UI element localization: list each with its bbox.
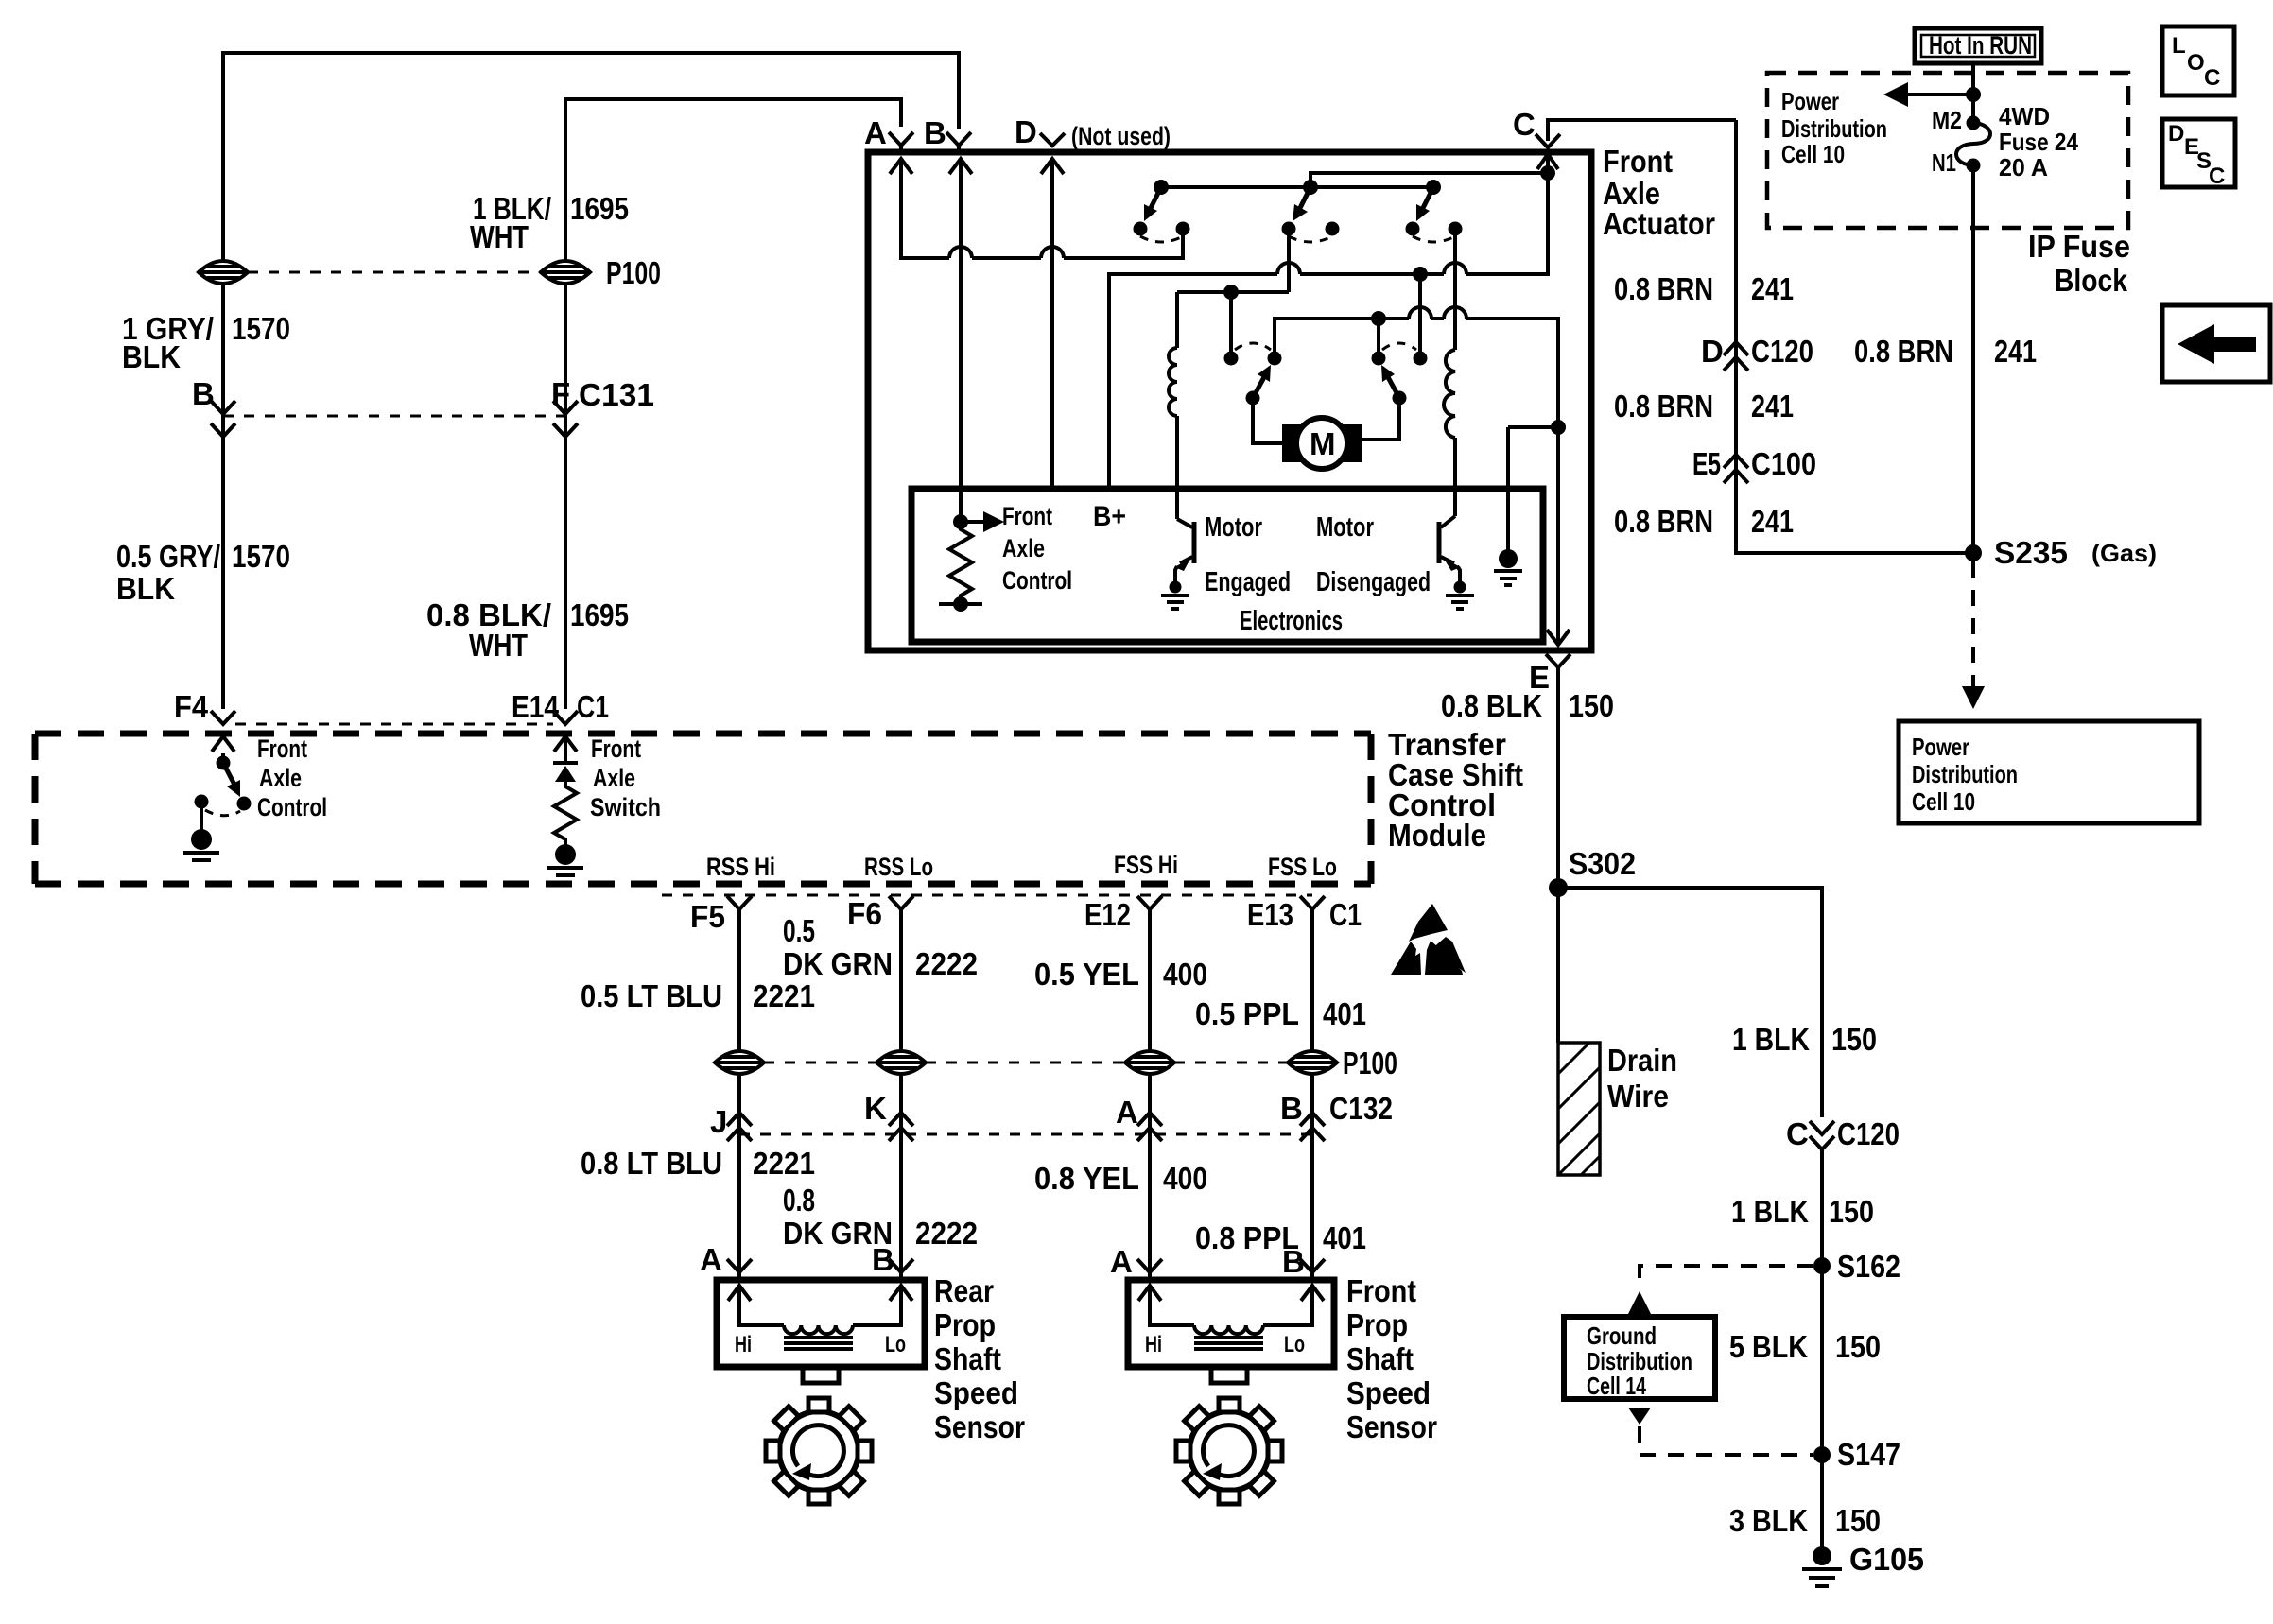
svg-text:E12: E12: [1084, 897, 1131, 932]
rear sensor pin B arrow: [853, 1286, 912, 1325]
svg-text:C120: C120: [1751, 334, 1813, 369]
svg-text:0.5: 0.5: [783, 913, 815, 948]
terminal D chevron (not used): [1040, 133, 1065, 146]
svg-text:F: F: [551, 376, 570, 411]
svg-text:O: O: [2187, 50, 2205, 76]
svg-text:S235: S235: [1994, 535, 2068, 570]
connector P100 pass-through (E12 wire): [1125, 1051, 1174, 1074]
svg-text:2222: 2222: [915, 946, 978, 981]
svg-text:Actuator: Actuator: [1603, 206, 1715, 241]
svg-text:Speed: Speed: [934, 1375, 1018, 1410]
svg-text:B: B: [924, 115, 946, 150]
svg-text:FSS Hi: FSS Hi: [1114, 851, 1178, 879]
wire E exit with arrow: [1547, 427, 1570, 645]
front sensor mount tab: [1211, 1367, 1247, 1383]
dashed link ground distribution to S147: [1628, 1408, 1813, 1455]
svg-text:0.5 GRY/: 0.5 GRY/: [116, 539, 220, 574]
svg-text:P100: P100: [606, 255, 661, 290]
connector P100 pass-through (right wire): [541, 261, 590, 284]
resistor bottom junction dot and bus: [939, 596, 982, 612]
connector P100 pass-through (F6 wire): [876, 1051, 926, 1074]
coil L2 (disengage winding): [1444, 235, 1455, 516]
svg-text:WHT: WHT: [470, 219, 529, 254]
label Front Prop Shaft Speed Sensor: [1346, 1273, 1437, 1444]
svg-text:C: C: [2204, 65, 2220, 91]
switch S2 (pivot dot, arm, contacts, arc): [1282, 180, 1340, 242]
front tone wheel gear: [1176, 1398, 1282, 1504]
svg-text:C100: C100: [1751, 446, 1816, 481]
wire FSS Hi E12 to sensor: [1148, 909, 1152, 1271]
junction dot B+ line to motor switch R: [1413, 267, 1428, 282]
connector P100 pass-through (F5 wire): [715, 1051, 764, 1074]
terminal F6 chevron: [889, 896, 913, 917]
svg-text:C1: C1: [1329, 897, 1362, 932]
arrow to power distribution: [1883, 82, 1973, 107]
front sensor core bars: [1194, 1338, 1263, 1349]
connector C132 chevrons B: [1300, 1113, 1325, 1141]
svg-text:FSS Lo: FSS Lo: [1268, 853, 1337, 881]
terminal B chevron: [946, 132, 971, 152]
svg-text:Power: Power: [1781, 87, 1839, 115]
transfer case shift control module dashed box: [35, 734, 1371, 884]
terminal B chevron (rear sensor): [889, 1259, 913, 1279]
switch S2 top link line to C junction: [1310, 173, 1548, 187]
front sensor pickup coil: [1194, 1325, 1263, 1334]
terminal E13 chevron: [1300, 896, 1325, 917]
svg-text:D: D: [2168, 121, 2184, 147]
svg-text:Motor: Motor: [1205, 512, 1262, 543]
connector C131 terminal F chevrons: [553, 401, 578, 437]
wire FSS Lo E13 to sensor: [1310, 909, 1314, 1271]
hop of B+ line over coil2 wire: [1444, 263, 1466, 274]
legend DESC box: [2162, 119, 2235, 189]
hop of h4 over coil2 wire: [1444, 307, 1466, 319]
wire fuse output to S235: [1971, 165, 1975, 553]
svg-text:0.8 BRN: 0.8 BRN: [1854, 334, 1953, 369]
pin D wire inside actuator with arrow: [1041, 159, 1064, 489]
svg-text:M2: M2: [1932, 106, 1962, 134]
svg-text:E5: E5: [1692, 446, 1721, 481]
splice S162: [1813, 1257, 1831, 1274]
svg-text:Front: Front: [1002, 502, 1052, 530]
transistor Q2 motor disengaged: [1439, 516, 1461, 584]
svg-text:G105: G105: [1849, 1542, 1924, 1577]
wire 241 column (C to S235): [1736, 120, 1973, 553]
svg-text:Shaft: Shaft: [1346, 1341, 1414, 1376]
transistor Q1 motor engaged: [1174, 519, 1194, 584]
svg-text:0.8 LT BLU: 0.8 LT BLU: [581, 1146, 722, 1181]
junction dot C feed: [1540, 165, 1555, 181]
svg-text:C1: C1: [577, 689, 609, 724]
terminal E chevron: [1546, 654, 1570, 675]
svg-text:Hi: Hi: [735, 1332, 752, 1357]
svg-text:Drain: Drain: [1607, 1043, 1677, 1078]
terminal E14 chevron: [553, 711, 578, 724]
svg-text:F5: F5: [690, 899, 725, 934]
connector C1 dashed line (module bottom): [662, 894, 1312, 897]
svg-text:Fuse 24: Fuse 24: [1999, 128, 2078, 156]
ground G105: [1802, 1546, 1842, 1586]
svg-text:A: A: [700, 1242, 722, 1277]
svg-text:B: B: [1280, 1091, 1303, 1126]
pin C wire inside actuator with arrow: [1537, 154, 1558, 274]
B+ line h3: [1109, 181, 1548, 489]
svg-text:Hot In RUN: Hot In RUN: [1929, 31, 2032, 60]
connector C132 chevrons J: [727, 1113, 752, 1141]
svg-text:400: 400: [1163, 1161, 1207, 1196]
svg-text:C: C: [1786, 1116, 1809, 1151]
motor M: [1282, 418, 1362, 469]
connector C131 terminal B chevrons: [211, 401, 235, 437]
terminal A chevron (front sensor): [1137, 1259, 1162, 1279]
svg-text:A: A: [1110, 1244, 1133, 1279]
svg-text:Electronics: Electronics: [1240, 606, 1343, 636]
svg-text:Ground: Ground: [1587, 1322, 1657, 1350]
svg-text:DK GRN: DK GRN: [783, 946, 893, 981]
wire S1 right contact to A run: [1181, 235, 1185, 258]
connector C100 chevrons (E5): [1724, 455, 1748, 483]
svg-text:B+: B+: [1093, 501, 1126, 532]
svg-text:F6: F6: [847, 896, 882, 931]
svg-text:D: D: [1701, 334, 1724, 369]
svg-text:Shaft: Shaft: [934, 1341, 1001, 1376]
svg-text:Sensor: Sensor: [1346, 1409, 1437, 1444]
svg-text:Front: Front: [1603, 144, 1673, 179]
common line h4: [1275, 319, 1558, 427]
svg-text:L: L: [2172, 33, 2186, 59]
internal ground dot (case ground): [1494, 427, 1522, 585]
svg-text:C132: C132: [1329, 1091, 1393, 1126]
coil link horizontal (short bus y=309): [1177, 290, 1289, 294]
svg-text:Sensor: Sensor: [934, 1409, 1025, 1444]
svg-text:Prop: Prop: [1346, 1307, 1408, 1342]
wire junction down to motor switch R right contact: [1418, 274, 1422, 352]
svg-text:B: B: [192, 376, 215, 411]
front axle switch sensor (module internal): [547, 736, 583, 875]
wire junction down to motor switch L left contact: [1229, 292, 1233, 352]
svg-text:0.8 BRN: 0.8 BRN: [1614, 271, 1713, 306]
motor switch L (contacts, arc, arm, pivot): [1224, 343, 1283, 443]
resistor (front axle control): [949, 522, 972, 604]
connector C132 dashed line: [739, 1133, 1312, 1136]
splice S147: [1813, 1446, 1831, 1463]
wire S302 to ground column: [1558, 888, 1822, 1117]
svg-text:Rear: Rear: [934, 1273, 994, 1308]
wire junction down to motor switch R left contact: [1377, 319, 1380, 352]
svg-text:C: C: [1513, 107, 1536, 142]
connector C120 chevrons (C): [1810, 1121, 1834, 1149]
connector C131 dashed line: [223, 415, 565, 418]
svg-text:S162: S162: [1837, 1249, 1900, 1284]
terminal F4 chevron: [211, 711, 235, 724]
terminal E12 chevron: [1137, 896, 1162, 917]
svg-text:Motor: Motor: [1316, 512, 1374, 543]
svg-text:BLK: BLK: [122, 339, 181, 374]
svg-text:A: A: [1116, 1095, 1138, 1130]
dashed link S162 to ground distribution: [1628, 1266, 1813, 1314]
wire E dot to ground branch: [1508, 425, 1558, 429]
svg-text:BLK: BLK: [116, 571, 175, 606]
Power Distribution Cell 10 box (bottom): [1899, 721, 2199, 823]
switch S3 (pivot dot, arm, contacts, arc): [1406, 180, 1463, 242]
ground (Q1 emitter): [1161, 581, 1189, 610]
connector C1 dashed line (F4-E14): [235, 723, 553, 726]
svg-text:0.8 BRN: 0.8 BRN: [1614, 389, 1713, 423]
hop of B+ line over S2 contact wire: [1277, 263, 1300, 274]
motor switch R (contacts, arc, arm, pivot): [1362, 343, 1428, 440]
svg-text:0.5 YEL: 0.5 YEL: [1034, 957, 1139, 992]
svg-text:1570: 1570: [232, 539, 290, 574]
svg-text:C120: C120: [1837, 1116, 1900, 1151]
svg-text:2222: 2222: [915, 1216, 978, 1251]
svg-text:1570: 1570: [232, 311, 290, 346]
svg-text:Engaged: Engaged: [1205, 567, 1291, 597]
svg-text:0.5 PPL: 0.5 PPL: [1195, 996, 1299, 1031]
Hot In RUN box: [1915, 28, 2041, 63]
svg-text:Control: Control: [1002, 566, 1072, 595]
svg-text:(Gas): (Gas): [2091, 539, 2157, 567]
svg-text:401: 401: [1323, 996, 1366, 1031]
terminal A chevron: [889, 132, 913, 152]
svg-text:0.8 BRN: 0.8 BRN: [1614, 504, 1713, 539]
pin B wire inside actuator with arrow: [949, 159, 972, 518]
svg-text:0.8 BLK: 0.8 BLK: [1441, 688, 1542, 723]
svg-text:N1: N1: [1932, 148, 1956, 177]
front sensor pin A arrow: [1138, 1286, 1194, 1325]
junction dot hot feed: [1966, 87, 1981, 102]
svg-text:RSS Hi: RSS Hi: [706, 853, 775, 881]
electronics box: [911, 489, 1543, 642]
svg-text:150: 150: [1835, 1503, 1881, 1538]
front prop shaft speed sensor box: [1128, 1280, 1334, 1367]
front axle actuator box: [868, 152, 1591, 650]
IP fuse block dashed box: [1767, 73, 2128, 228]
wire hot feed into fuse: [1971, 63, 1975, 123]
svg-text:M: M: [1310, 426, 1336, 461]
svg-text:1695: 1695: [570, 597, 629, 632]
svg-text:Lo: Lo: [1284, 1332, 1305, 1357]
connector C132 chevrons K: [889, 1113, 913, 1141]
svg-text:Cell 10: Cell 10: [1781, 140, 1845, 168]
junction dot on coil link: [1223, 285, 1239, 300]
svg-text:2221: 2221: [753, 1146, 815, 1181]
svg-text:Cell 10: Cell 10: [1912, 787, 1975, 816]
junction dot E wire in actuator: [1551, 420, 1566, 435]
svg-text:Axle: Axle: [593, 764, 635, 792]
ground (front axle control): [183, 802, 219, 860]
rear sensor mount tab: [803, 1367, 839, 1383]
coil L1 (engage winding): [1169, 292, 1177, 519]
splice S302: [1549, 878, 1568, 897]
svg-text:2221: 2221: [753, 978, 815, 1013]
svg-text:241: 241: [1751, 504, 1794, 539]
dashed drop from S235 with arrow: [1962, 561, 1985, 709]
svg-text:F4: F4: [174, 689, 209, 724]
svg-text:Control: Control: [257, 793, 327, 821]
svg-text:1 BLK: 1 BLK: [1731, 1194, 1809, 1229]
connector C120 chevrons (D): [1724, 342, 1748, 371]
svg-text:Disengaged: Disengaged: [1316, 567, 1431, 597]
svg-text:150: 150: [1829, 1194, 1874, 1229]
svg-text:Block: Block: [2055, 263, 2128, 298]
connector P100 pass-through (E13 wire): [1288, 1051, 1337, 1074]
svg-text:WHT: WHT: [469, 628, 528, 663]
terminal B chevron (front sensor): [1300, 1259, 1325, 1279]
ground (Q2 emitter): [1446, 581, 1474, 610]
svg-text:E13: E13: [1247, 897, 1293, 932]
svg-text:Wire: Wire: [1607, 1079, 1669, 1114]
svg-text:Distribution: Distribution: [1781, 114, 1887, 143]
dashed pass-through line P100 row2: [764, 1062, 1288, 1064]
pin A wire inside actuator with arrow: [890, 159, 1183, 258]
svg-text:Distribution: Distribution: [1912, 760, 2018, 788]
wire 1695 BLK/WHT top run to actuator terminal A: [565, 99, 901, 709]
front axle control arrow (inside electronics): [961, 520, 989, 524]
rear sensor pickup coil: [784, 1325, 853, 1334]
svg-text:Front: Front: [257, 734, 307, 763]
rear tone wheel gear: [766, 1398, 872, 1504]
svg-text:Front: Front: [1346, 1273, 1416, 1308]
svg-text:RSS Lo: RSS Lo: [864, 853, 933, 881]
svg-text:400: 400: [1163, 957, 1207, 992]
svg-text:E14: E14: [512, 689, 560, 724]
svg-text:3 BLK: 3 BLK: [1729, 1503, 1808, 1538]
hop of h4 over B+ branch wire: [1409, 307, 1431, 319]
front axle control switch (module internal): [195, 736, 252, 816]
svg-text:401: 401: [1323, 1220, 1366, 1255]
svg-text:0.5 LT BLU: 0.5 LT BLU: [581, 978, 722, 1013]
svg-text:Front: Front: [591, 734, 641, 763]
junction dot B pin at electronics: [953, 514, 968, 529]
label Transfer Case Shift Control Module: [1388, 727, 1523, 853]
connector C132 chevrons A: [1137, 1113, 1162, 1141]
svg-text:Prop: Prop: [934, 1307, 996, 1342]
svg-text:5 BLK: 5 BLK: [1729, 1329, 1808, 1364]
svg-text:Axle: Axle: [259, 764, 302, 792]
wire RSS Hi F5 to sensor: [737, 909, 741, 1271]
splice S235: [1965, 544, 1982, 561]
svg-text:S302: S302: [1569, 846, 1636, 881]
svg-text:Cell 14: Cell 14: [1587, 1372, 1646, 1400]
fuse 4WD Fuse 24 (M2/N1 dots and element): [1956, 116, 1990, 173]
svg-text:Module: Module: [1388, 818, 1486, 853]
wire E to S302: [1556, 667, 1560, 888]
rear prop shaft speed sensor box: [717, 1280, 925, 1367]
label Rear Prop Shaft Speed Sensor: [934, 1273, 1025, 1444]
terminal A chevron (rear sensor): [727, 1259, 752, 1279]
front sensor pin B arrow: [1263, 1286, 1324, 1325]
svg-text:241: 241: [1751, 271, 1794, 306]
ground distribution cell 14 box: [1564, 1317, 1715, 1400]
rear sensor pin A arrow: [728, 1286, 784, 1325]
svg-text:20 A: 20 A: [1999, 153, 2048, 181]
svg-text:Lo: Lo: [885, 1332, 906, 1357]
svg-text:150: 150: [1831, 1022, 1877, 1057]
terminal F5 chevron: [727, 896, 752, 917]
wire S2 left contact down to coil link: [1287, 235, 1291, 292]
svg-text:0.8 YEL: 0.8 YEL: [1034, 1161, 1139, 1196]
svg-text:A: A: [864, 115, 887, 150]
svg-text:150: 150: [1569, 688, 1614, 723]
svg-text:Power: Power: [1912, 733, 1969, 761]
rear sensor core bars: [784, 1338, 853, 1349]
wire C120 to G105: [1820, 1149, 1824, 1555]
svg-text:0.8: 0.8: [783, 1183, 815, 1218]
connector P100 pass-through (left wire): [199, 261, 248, 284]
svg-text:Axle: Axle: [1002, 534, 1045, 562]
dashed pass-through line P100: [248, 271, 541, 274]
svg-text:D: D: [1015, 114, 1037, 149]
drain wire symbol (hatched): [1558, 1043, 1600, 1175]
svg-text:150: 150: [1835, 1329, 1881, 1364]
wire C external run to fuse column: [1548, 120, 1736, 141]
wire 1570 GRY/BLK top run to actuator terminal B: [223, 53, 959, 709]
svg-text:241: 241: [1994, 334, 2037, 369]
svg-text:S147: S147: [1837, 1437, 1900, 1472]
svg-text:Switch: Switch: [590, 793, 661, 821]
switch S1 (pivot dot, arm, contacts, arc): [1134, 180, 1190, 242]
svg-text:C: C: [2209, 164, 2225, 189]
ESD sensitivity symbol: [1391, 904, 1466, 975]
svg-text:Hi: Hi: [1145, 1332, 1162, 1357]
terminal C chevron: [1536, 134, 1560, 147]
svg-text:241: 241: [1751, 389, 1794, 423]
switch S1 top link line (S1 to S3): [1161, 185, 1433, 189]
svg-text:(Not used): (Not used): [1071, 122, 1171, 150]
svg-text:1 BLK: 1 BLK: [1732, 1022, 1810, 1057]
wire RSS Lo F6 to sensor: [899, 909, 903, 1271]
wire S302 to drain wire: [1556, 888, 1560, 1043]
svg-text:K: K: [864, 1091, 887, 1126]
legend LOC box: [2162, 26, 2234, 95]
svg-text:J: J: [710, 1104, 727, 1139]
svg-text:4WD: 4WD: [1999, 102, 2050, 130]
svg-text:C131: C131: [579, 377, 654, 412]
svg-text:P100: P100: [1343, 1045, 1397, 1080]
svg-text:1695: 1695: [570, 191, 629, 226]
junction dot h4 to motor switch R left contact: [1371, 311, 1386, 326]
svg-text:IP Fuse: IP Fuse: [2028, 229, 2130, 264]
legend back arrow box: [2162, 305, 2270, 382]
svg-text:Speed: Speed: [1346, 1375, 1431, 1410]
